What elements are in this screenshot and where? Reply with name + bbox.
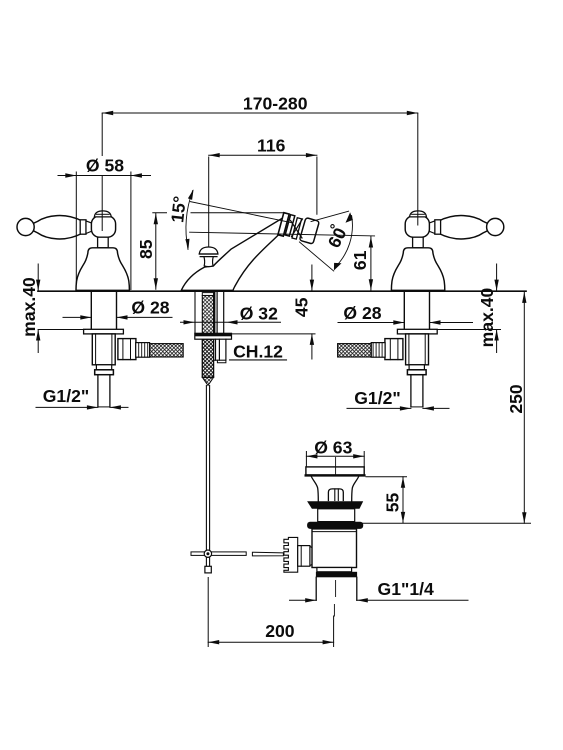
left valve body below deck (V1) bbox=[84, 292, 184, 407]
lever arm bbox=[34, 216, 82, 239]
handle stem bbox=[98, 237, 109, 248]
ball joint bbox=[204, 550, 211, 557]
dimension Ø63 bbox=[306, 452, 364, 467]
lever ferrule collar bbox=[80, 220, 86, 234]
drain body bbox=[312, 529, 357, 568]
deck / mounting surface line bbox=[38, 290, 526, 292]
dimension Ø28 right bbox=[338, 320, 473, 324]
dimension 200 bbox=[208, 578, 333, 647]
dimension 116 bbox=[209, 153, 317, 247]
dimension G1/2 right bbox=[347, 406, 449, 410]
lower step rings bbox=[96, 365, 111, 370]
svg-text:max.40: max.40 bbox=[19, 277, 39, 337]
horizontal bar left segment bbox=[191, 552, 246, 556]
body step ring bbox=[317, 568, 352, 572]
drain flange Ø63 bbox=[306, 467, 364, 475]
centerline segments bbox=[334, 458, 335, 617]
label CH.12 with leader underline bbox=[230, 342, 287, 362]
pop-up lift knob bbox=[199, 247, 218, 267]
handle head bbox=[91, 216, 115, 237]
dimension 45 bbox=[232, 265, 316, 359]
left handle assembly (lever handle H1) bbox=[17, 211, 129, 291]
right valve (mirror of V1) bbox=[338, 292, 438, 407]
center spout body bbox=[181, 217, 284, 290]
svg-text:max.40: max.40 bbox=[477, 287, 497, 347]
15-degree construction line (upper ray) bbox=[190, 202, 293, 223]
svg-text:61: 61 bbox=[350, 250, 370, 270]
dimension 85 bbox=[153, 213, 284, 289]
svg-text:Ø 58: Ø 58 bbox=[86, 156, 124, 176]
svg-text:170-280: 170-280 bbox=[243, 94, 308, 114]
pop-up rod bbox=[205, 386, 211, 573]
dimension Ø32 bbox=[181, 320, 281, 324]
dimension G1 1/4 bbox=[290, 598, 469, 602]
horizontal bar right segment bbox=[252, 552, 283, 556]
15-degree arc with arrows bbox=[185, 189, 193, 249]
rod end cap bbox=[205, 566, 211, 573]
shank left edge bbox=[194, 292, 196, 333]
G1 1/4 tailpipe bbox=[316, 577, 357, 600]
pop-up drain assembly D1 bbox=[306, 458, 365, 617]
dimension max.40 right bbox=[438, 264, 501, 353]
mounting flange nut bbox=[84, 329, 124, 334]
nipple into drain body bbox=[298, 546, 310, 567]
60-degree arc with arrows bbox=[334, 212, 353, 270]
svg-text:15°: 15° bbox=[167, 195, 190, 224]
svg-text:200: 200 bbox=[265, 621, 295, 641]
dimension max.40 left bbox=[36, 264, 86, 353]
center shank with threaded stud and nut CH.12 bbox=[195, 292, 232, 386]
flexible hose bbox=[150, 344, 184, 357]
shank right tube lines bbox=[217, 292, 224, 333]
svg-text:85: 85 bbox=[136, 239, 156, 259]
mid body bbox=[318, 509, 355, 522]
dimension 170-280 bbox=[102, 111, 418, 231]
pop-up linkage: ball joint and cross bar bbox=[191, 537, 316, 572]
lever end knob bbox=[17, 218, 34, 235]
svg-text:250: 250 bbox=[506, 384, 526, 414]
svg-text:45: 45 bbox=[291, 297, 311, 317]
svg-text:G1"1/4: G1"1/4 bbox=[378, 579, 434, 599]
head top cap bbox=[94, 211, 111, 217]
60-degree lower ray bbox=[299, 242, 333, 271]
stud taper below flange bbox=[202, 339, 213, 377]
dimension G1/2 left bbox=[36, 405, 128, 409]
svg-text:G1/2": G1/2" bbox=[354, 388, 400, 408]
svg-text:CH.12: CH.12 bbox=[233, 342, 283, 362]
upper rubber washer (bevelled) bbox=[307, 501, 363, 509]
mounting washer flange bbox=[195, 333, 232, 339]
spout aerator (tilted rings and end cap) bbox=[278, 213, 319, 244]
hose nipple bbox=[136, 343, 150, 358]
knurled coupling nut bbox=[284, 537, 298, 572]
dimension Ø58 bbox=[58, 172, 151, 290]
lower rubber washer bbox=[307, 522, 363, 529]
valve body bbox=[92, 334, 115, 365]
60-degree upper ray bbox=[311, 211, 349, 221]
dimension 61 bbox=[369, 237, 373, 291]
dimension 55 bbox=[362, 477, 531, 524]
svg-text:Ø 28: Ø 28 bbox=[343, 303, 381, 323]
knurled adjuster bbox=[328, 489, 343, 501]
handle bell base bbox=[76, 248, 129, 291]
G1/2 tailpiece bbox=[98, 375, 110, 407]
threaded stud (hatched) bbox=[202, 293, 213, 296]
svg-text:Ø 63: Ø 63 bbox=[314, 437, 352, 457]
ferrule wedge bbox=[86, 221, 92, 234]
drain neck bbox=[311, 477, 358, 502]
svg-text:G1/2": G1/2" bbox=[43, 386, 89, 406]
bold ring bbox=[316, 572, 357, 578]
svg-text:Ø 32: Ø 32 bbox=[240, 303, 278, 323]
shank Ø28 bbox=[91, 292, 116, 329]
dimension Ø28 left bbox=[63, 315, 172, 319]
nut CH.12 (right half-section) bbox=[216, 339, 226, 360]
svg-text:Ø 28: Ø 28 bbox=[131, 297, 169, 317]
svg-text:116: 116 bbox=[257, 136, 286, 156]
horizontal reference ray bbox=[190, 232, 375, 236]
svg-text:55: 55 bbox=[382, 493, 402, 513]
side union nut bbox=[118, 339, 136, 360]
right handle (mirror of H1) bbox=[391, 211, 503, 291]
dimension 250 bbox=[522, 292, 526, 523]
drain socket arc bbox=[310, 547, 316, 566]
